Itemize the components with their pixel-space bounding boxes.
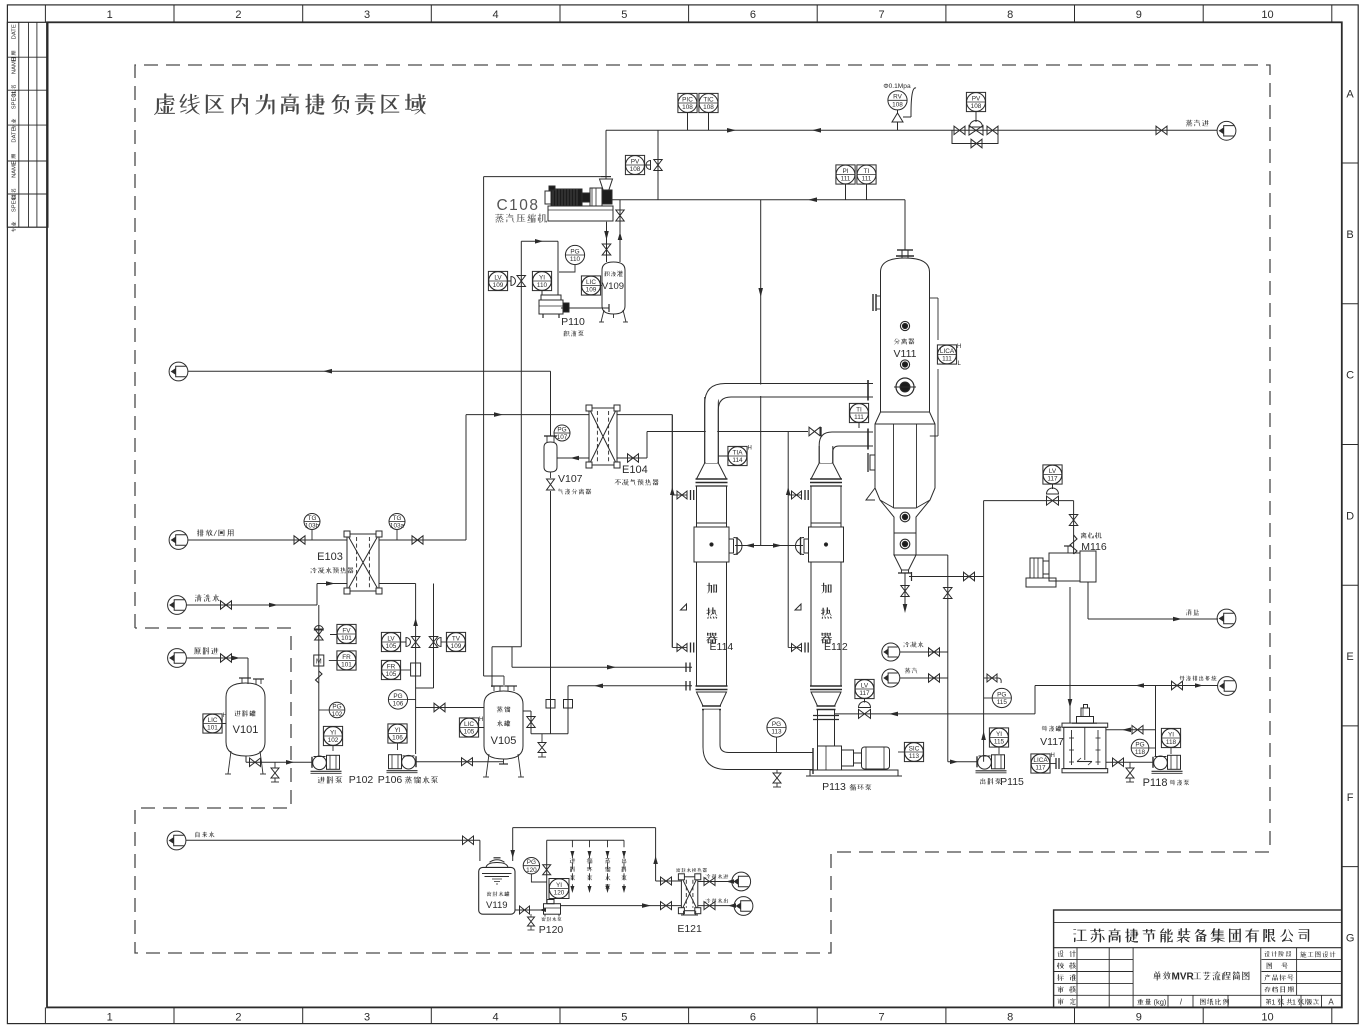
svg-text:1: 1	[107, 1011, 113, 1023]
svg-text:V101: V101	[233, 724, 259, 736]
svg-text:YI: YI	[1168, 731, 1174, 738]
svg-text:109: 109	[586, 287, 597, 294]
svg-text:LV: LV	[1049, 468, 1057, 475]
svg-text:PG: PG	[527, 859, 536, 866]
svg-text:灌: 灌	[617, 270, 623, 278]
svg-text:10: 10	[1261, 9, 1273, 21]
svg-text:109: 109	[493, 282, 504, 289]
svg-text:102: 102	[328, 737, 339, 744]
svg-text:PIC: PIC	[682, 96, 693, 103]
svg-text:TI: TI	[856, 406, 862, 413]
svg-text:E112: E112	[824, 641, 848, 653]
svg-text:A: A	[1346, 88, 1354, 100]
svg-text:PG: PG	[332, 703, 341, 710]
svg-text:1: 1	[107, 9, 113, 21]
svg-text:110: 110	[570, 256, 581, 263]
svg-text:106: 106	[392, 735, 403, 742]
svg-text:PV: PV	[972, 95, 981, 102]
svg-text:LV: LV	[387, 635, 395, 642]
svg-text:3: 3	[364, 9, 370, 21]
svg-text:YI: YI	[394, 727, 400, 734]
svg-text:FR: FR	[342, 654, 351, 661]
svg-text:7: 7	[879, 9, 885, 21]
svg-text:A: A	[1328, 998, 1334, 1007]
svg-text:E114: E114	[710, 641, 734, 653]
svg-text:118: 118	[1135, 749, 1146, 756]
svg-text:5: 5	[621, 1011, 627, 1023]
svg-text:E121: E121	[677, 923, 702, 935]
svg-text:PG: PG	[772, 721, 781, 728]
svg-text:9: 9	[1136, 1011, 1142, 1023]
svg-text:E103: E103	[317, 551, 343, 563]
svg-text:115: 115	[997, 699, 1008, 706]
svg-text:H: H	[479, 717, 483, 723]
svg-text:108: 108	[682, 104, 693, 111]
svg-text:108: 108	[630, 166, 641, 173]
svg-text:SPECI.: SPECI.	[12, 90, 18, 109]
svg-text:FV: FV	[342, 627, 351, 634]
svg-text:110: 110	[537, 282, 548, 289]
svg-text:RV: RV	[893, 94, 902, 101]
svg-text:E104: E104	[622, 464, 648, 476]
svg-text:FR: FR	[387, 663, 396, 670]
svg-text:101: 101	[341, 635, 352, 642]
svg-text:LV: LV	[861, 682, 869, 689]
svg-text:TG: TG	[308, 515, 317, 522]
svg-text:1: 1	[1292, 998, 1296, 1007]
svg-text:109: 109	[451, 643, 462, 650]
svg-text:M116: M116	[1081, 541, 1107, 553]
svg-text:LICA: LICA	[940, 348, 955, 355]
svg-text:LIC: LIC	[586, 279, 596, 286]
svg-text:PI: PI	[842, 168, 848, 175]
svg-text:DATE: DATE	[12, 24, 18, 39]
svg-text:1: 1	[1271, 998, 1275, 1007]
svg-text:4: 4	[493, 1011, 499, 1023]
svg-text:113: 113	[771, 729, 782, 736]
svg-text:9: 9	[1136, 9, 1142, 21]
svg-text:D: D	[1346, 511, 1354, 523]
svg-text:B: B	[1346, 229, 1353, 241]
svg-text:101: 101	[207, 725, 218, 732]
svg-text:P106: P106	[378, 774, 403, 786]
svg-text:PG: PG	[557, 426, 566, 433]
svg-text:V119: V119	[486, 900, 507, 911]
svg-text:P102: P102	[349, 774, 374, 786]
svg-text:107: 107	[557, 434, 568, 441]
svg-text:101: 101	[341, 662, 352, 669]
svg-text:LIC: LIC	[464, 721, 474, 728]
svg-text:2: 2	[235, 9, 241, 21]
svg-text:YI: YI	[556, 882, 562, 889]
svg-text:PG: PG	[393, 693, 402, 700]
svg-text:YI: YI	[330, 729, 336, 736]
svg-text:H: H	[748, 445, 752, 451]
svg-text:105: 105	[386, 643, 397, 650]
svg-text:PV: PV	[631, 158, 640, 165]
svg-text:111: 111	[942, 356, 952, 363]
svg-text:H: H	[223, 713, 227, 719]
svg-text:H: H	[957, 344, 961, 350]
svg-text:LIC: LIC	[208, 717, 218, 724]
svg-text:113: 113	[909, 753, 920, 760]
svg-text:NAME: NAME	[12, 57, 18, 74]
svg-text:108: 108	[971, 103, 982, 110]
svg-text:P120: P120	[539, 924, 564, 936]
svg-text:TG: TG	[393, 515, 402, 522]
svg-text:LICA: LICA	[1033, 757, 1048, 764]
svg-text:SPECI.: SPECI.	[12, 193, 18, 212]
svg-text:F: F	[1347, 792, 1354, 804]
svg-text:6: 6	[750, 9, 756, 21]
svg-text:103b: 103b	[305, 523, 320, 530]
svg-text:106: 106	[393, 701, 404, 708]
svg-text:8: 8	[1007, 1011, 1013, 1023]
svg-text:M: M	[316, 659, 322, 666]
svg-text:V111: V111	[894, 348, 917, 360]
svg-text:(kg): (kg)	[1154, 998, 1167, 1007]
svg-text:E: E	[1346, 651, 1353, 663]
svg-text:120: 120	[526, 867, 537, 874]
svg-text:102: 102	[332, 711, 343, 718]
svg-text:Φ0.1Mpa: Φ0.1Mpa	[883, 83, 911, 90]
svg-text:PG: PG	[997, 691, 1006, 698]
svg-text:YI: YI	[996, 731, 1002, 738]
svg-text:111: 111	[862, 176, 872, 183]
svg-text:115: 115	[994, 739, 1005, 746]
svg-text:YI: YI	[539, 274, 545, 281]
svg-text:105: 105	[386, 671, 397, 678]
svg-text:P115: P115	[1000, 776, 1024, 788]
svg-text:120: 120	[554, 890, 565, 897]
svg-text:111: 111	[841, 176, 851, 183]
svg-text:7: 7	[879, 1011, 885, 1023]
svg-text:118: 118	[1166, 739, 1177, 746]
svg-text:PG: PG	[1135, 741, 1144, 748]
svg-text:108: 108	[703, 104, 714, 111]
svg-text:117: 117	[1047, 476, 1058, 483]
svg-text:TIC: TIC	[703, 96, 714, 103]
svg-text:2: 2	[235, 1011, 241, 1023]
svg-text:P118: P118	[1143, 777, 1168, 789]
svg-text:C108: C108	[496, 197, 539, 214]
svg-text:TIA: TIA	[733, 449, 744, 456]
svg-text:108: 108	[892, 102, 903, 109]
svg-text:4: 4	[493, 9, 499, 21]
svg-text:H: H	[1051, 753, 1055, 759]
svg-text:3: 3	[364, 1011, 370, 1023]
svg-text:5: 5	[621, 9, 627, 21]
svg-text:DATE: DATE	[12, 127, 18, 142]
svg-text:PG: PG	[570, 248, 579, 255]
svg-text:LV: LV	[494, 274, 502, 281]
svg-text:MVR: MVR	[1172, 972, 1195, 983]
svg-text:10: 10	[1261, 1011, 1273, 1023]
svg-text:117: 117	[859, 690, 870, 697]
svg-text:6: 6	[750, 1011, 756, 1023]
svg-text:8: 8	[1007, 9, 1013, 21]
svg-text:103a: 103a	[390, 523, 405, 530]
svg-text:117: 117	[1035, 765, 1046, 772]
svg-text:V117: V117	[1040, 736, 1064, 748]
svg-text:P113: P113	[822, 781, 846, 793]
svg-text:V109: V109	[602, 281, 624, 292]
svg-text:SIC: SIC	[909, 745, 920, 752]
svg-text:111: 111	[854, 414, 864, 421]
svg-text:V105: V105	[491, 735, 517, 747]
svg-text:114: 114	[732, 457, 743, 464]
svg-text:TI: TI	[864, 168, 870, 175]
svg-text:P110: P110	[561, 316, 585, 328]
svg-text:105: 105	[464, 729, 475, 736]
svg-text:TV: TV	[452, 635, 461, 642]
svg-text:C: C	[1346, 370, 1354, 382]
svg-text:V107: V107	[558, 473, 583, 485]
svg-text:G: G	[1346, 933, 1355, 945]
svg-text:NAME: NAME	[12, 161, 18, 178]
